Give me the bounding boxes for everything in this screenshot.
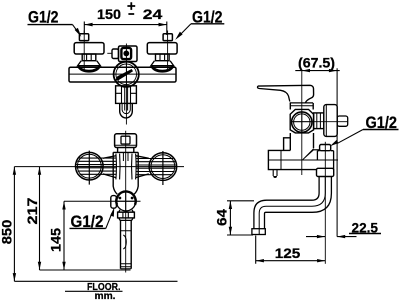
hex body section xyxy=(290,109,313,132)
left eccentric fitting square xyxy=(79,34,88,41)
label G1/2 top-left with leader xyxy=(28,8,82,37)
left nut xyxy=(82,54,96,61)
svg-text:125: 125 xyxy=(275,245,301,261)
shower pipe xyxy=(121,220,132,268)
right handle wheel xyxy=(136,151,177,185)
side view centerline xyxy=(301,71,303,175)
right escutcheon xyxy=(147,43,177,54)
svg-text:24: 24 xyxy=(143,6,163,22)
label G1/2 front view with leader xyxy=(70,207,115,231)
dimension line 150 with arrows xyxy=(84,22,167,36)
body bar xyxy=(69,67,176,82)
left eccentric fitting centerline xyxy=(83,31,85,71)
right nut xyxy=(156,54,170,61)
lever handle side view xyxy=(258,85,314,103)
svg-text:mm.: mm. xyxy=(95,290,116,300)
s-pipe xyxy=(254,177,332,229)
cartridge bolt xyxy=(121,48,131,59)
right arm xyxy=(136,156,149,178)
joint circle xyxy=(292,112,312,132)
wall stub G1/2 xyxy=(337,116,348,126)
right skirt xyxy=(132,154,137,180)
wall face line xyxy=(336,68,338,236)
spout plan slot xyxy=(125,87,128,111)
floor line xyxy=(14,280,177,282)
pipe foot xyxy=(252,229,265,235)
dimension 217 xyxy=(24,167,41,270)
nut under diverter xyxy=(118,210,135,221)
right eccentric fitting centerline xyxy=(167,31,169,71)
pipe coupling xyxy=(317,168,334,176)
dimension 850 xyxy=(0,167,16,282)
label G1/2 top-right with leader xyxy=(175,8,224,40)
svg-text:150: 150 xyxy=(97,6,121,22)
left handle wheel xyxy=(76,151,116,185)
body neck and dome xyxy=(290,103,314,110)
right eccentric fitting square xyxy=(163,34,172,41)
left cone xyxy=(78,61,101,71)
svg-text:217: 217 xyxy=(24,197,40,224)
lever pointer xyxy=(115,69,133,81)
svg-text:(67.5): (67.5) xyxy=(298,55,335,71)
handle cap xyxy=(115,134,137,148)
spout plan body xyxy=(116,86,137,104)
left skirt xyxy=(116,154,120,180)
front view centerline xyxy=(125,131,127,273)
underside wedge xyxy=(302,148,320,160)
dimension 125 xyxy=(256,236,326,264)
cartridge box xyxy=(119,46,138,62)
left arm xyxy=(103,156,116,178)
spout plan tip xyxy=(120,103,133,118)
dimension 22.5 xyxy=(306,219,381,238)
wall escutcheon xyxy=(324,105,337,137)
drip leg xyxy=(273,170,277,178)
dimension 64 xyxy=(213,201,254,235)
spout block xyxy=(268,150,338,169)
body trunk xyxy=(113,152,138,194)
dimension (67.5) xyxy=(295,55,339,73)
wall nut xyxy=(314,113,324,129)
svg-text:850: 850 xyxy=(0,220,14,245)
centerline overlays xyxy=(76,63,312,211)
left escutcheon xyxy=(74,43,104,54)
dimension 145 xyxy=(48,201,66,270)
FLOOR label xyxy=(65,281,123,300)
body slot xyxy=(123,153,128,161)
outlet fitting G1/2 xyxy=(320,145,331,151)
tab tick xyxy=(107,52,112,54)
label G1/2 side view with leader xyxy=(330,113,399,146)
neck xyxy=(113,148,138,153)
svg-text:64: 64 xyxy=(213,209,229,226)
diverter circle xyxy=(116,191,135,210)
pipe end baseline xyxy=(40,269,131,271)
svg-text:145: 145 xyxy=(48,228,64,252)
body lower sides xyxy=(284,133,314,150)
side outlet tab G1/2 xyxy=(111,196,117,209)
pipe axis line xyxy=(324,142,326,264)
cartridge side tab xyxy=(112,49,119,59)
wall assembly axis xyxy=(291,121,348,123)
right cone xyxy=(151,61,174,71)
dimension 150 +/- 24 text xyxy=(97,2,163,22)
outlet axis line xyxy=(64,200,141,202)
svg-text:G1/2: G1/2 xyxy=(28,8,59,27)
plan centerline xyxy=(125,44,127,125)
axis line through handles xyxy=(14,166,184,168)
lever circle xyxy=(114,62,139,87)
